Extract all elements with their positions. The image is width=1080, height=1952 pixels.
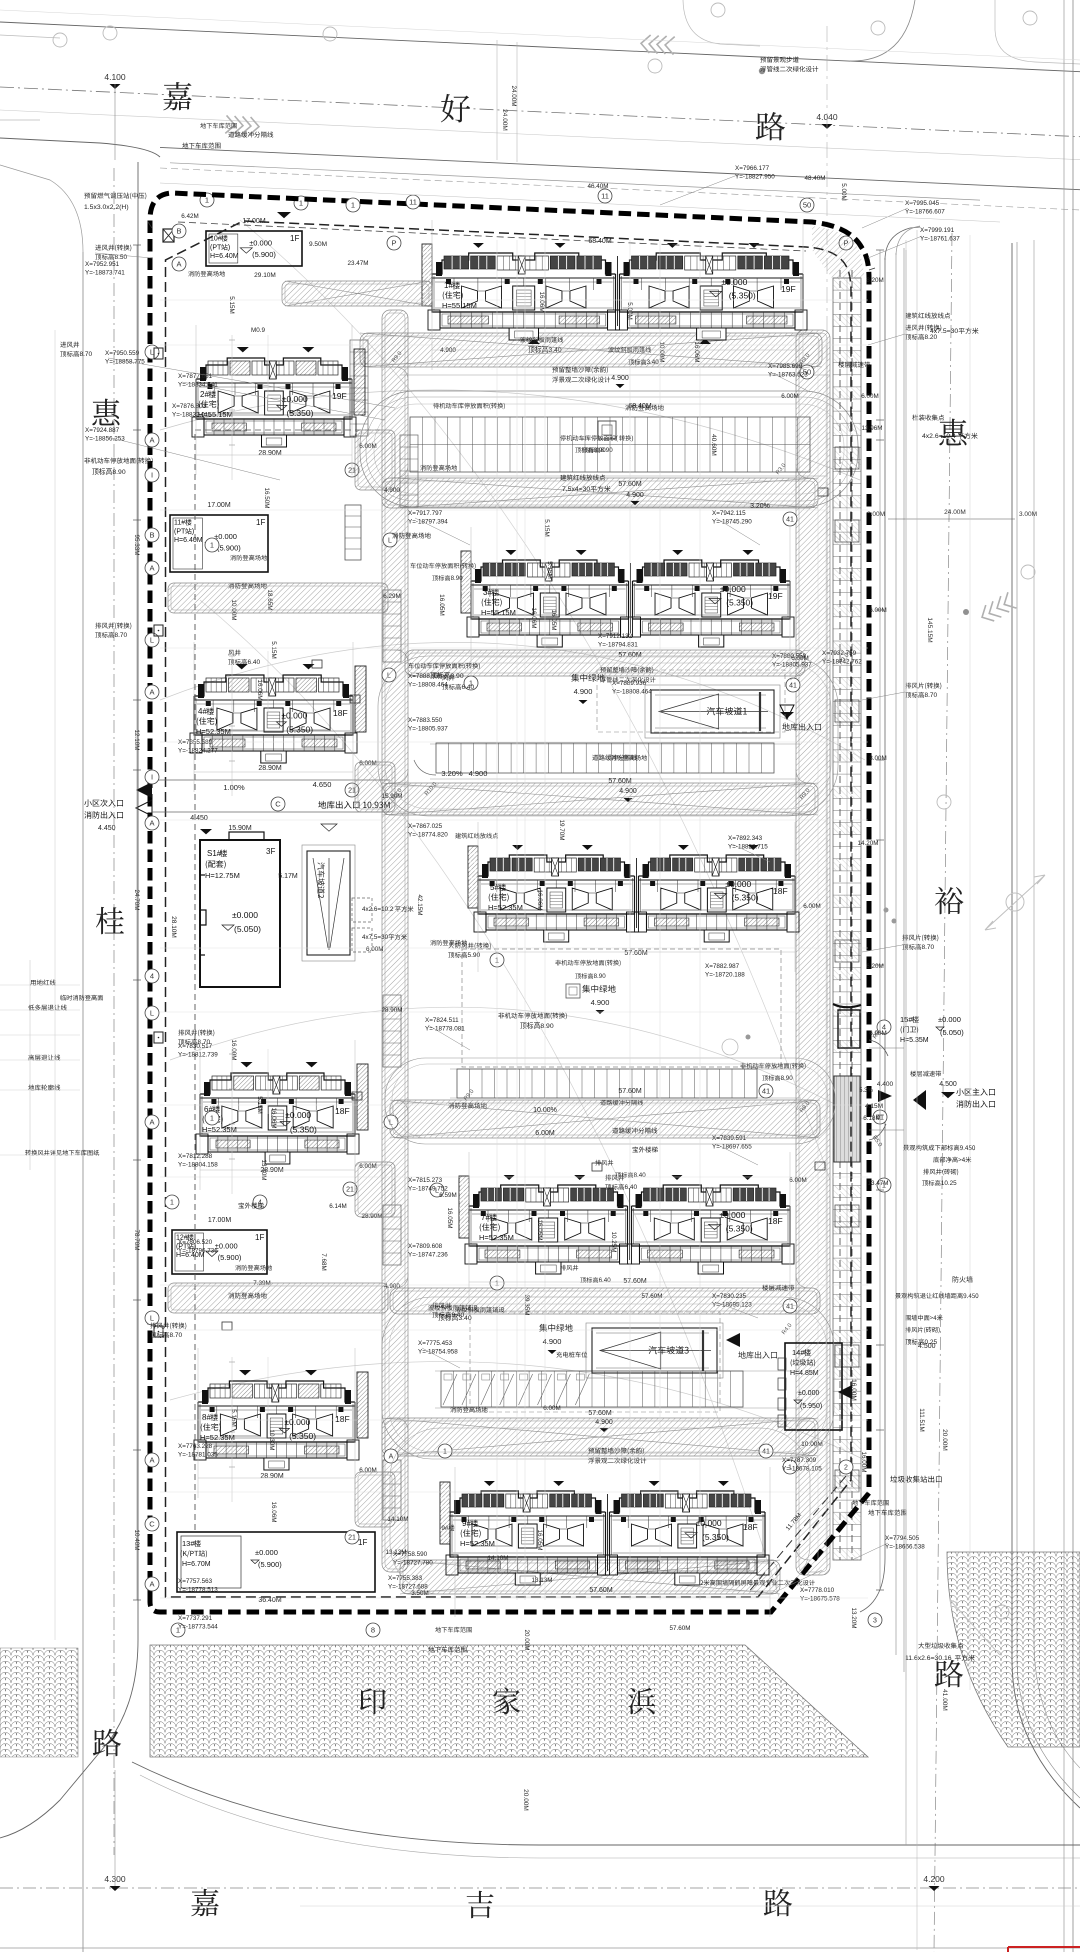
svg-text:57.60M: 57.60M xyxy=(623,1278,647,1285)
svg-text:1.5x3.0x2.2(H): 1.5x3.0x2.2(H) xyxy=(84,204,129,211)
green label 集中绿地 row7 xyxy=(539,1324,572,1332)
river west continuation xyxy=(0,1648,78,1757)
svg-text:4#: 4# xyxy=(198,707,207,716)
west entrance drive lines xyxy=(152,779,390,781)
svg-text:3F: 3F xyxy=(266,847,275,856)
svg-text:±0.000: ±0.000 xyxy=(696,1518,722,1528)
svg-text:±0.000: ±0.000 xyxy=(284,1417,310,1427)
vent shaft boxes xyxy=(350,695,360,703)
svg-text:57.60M: 57.60M xyxy=(589,1587,613,1594)
svg-text:6.40: 6.40 xyxy=(248,659,261,666)
east column inner dashed lines xyxy=(839,270,841,1560)
svg-text:±0.000: ±0.000 xyxy=(938,1015,961,1024)
road 惠裕路 east kerb xyxy=(1012,243,1080,1808)
svg-text:H=52.35M: H=52.35M xyxy=(479,1233,514,1242)
svg-text:L: L xyxy=(150,1314,154,1323)
svg-text:±0.000: ±0.000 xyxy=(721,277,747,287)
svg-text:±0.000: ±0.000 xyxy=(719,1210,745,1220)
svg-text:18F: 18F xyxy=(335,1414,350,1424)
svg-text:1F: 1F xyxy=(256,518,265,527)
svg-text:5.17M: 5.17M xyxy=(278,873,298,880)
axis bubbles corner B A xyxy=(172,224,186,238)
svg-text:X=7778.010: X=7778.010 xyxy=(800,1587,835,1594)
dim 24.00M right road xyxy=(888,518,1015,520)
svg-text:6.14M: 6.14M xyxy=(329,1203,347,1210)
witness line grid verticals xyxy=(496,240,498,1600)
svg-text:57.60M: 57.60M xyxy=(608,778,632,785)
east dimension chain line xyxy=(879,250,881,1590)
svg-text:41: 41 xyxy=(762,1087,770,1096)
svg-text:5.90: 5.90 xyxy=(468,952,481,959)
svg-text:Y=-18804.158: Y=-18804.158 xyxy=(178,1162,218,1169)
racetrack ring row C xyxy=(385,1058,835,1144)
svg-text:1: 1 xyxy=(351,201,355,210)
svg-text:4.650: 4.650 xyxy=(313,780,332,789)
west building dim chains xyxy=(231,335,233,480)
svg-text:2#: 2# xyxy=(200,390,209,399)
svg-text:40.60M: 40.60M xyxy=(710,434,717,456)
leader lines light xyxy=(95,253,152,258)
svg-text:16.05M: 16.05M xyxy=(536,1219,543,1240)
aisle junction fillet arcs xyxy=(394,367,408,381)
building 14# garbage station xyxy=(785,1343,842,1430)
svg-text:L: L xyxy=(150,1009,154,1018)
building 15# gatehouse xyxy=(838,1010,860,1048)
svg-text:6.00M: 6.00M xyxy=(366,946,384,953)
road 惠裕路 arrows xyxy=(978,601,1002,625)
svg-text:(5.900): (5.900) xyxy=(258,1560,282,1569)
misc annotation texts xyxy=(84,193,146,200)
west aisle parking racks xyxy=(350,340,368,436)
building 5# residential 18F xyxy=(478,855,635,876)
svg-text:20.00M: 20.00M xyxy=(523,1629,530,1650)
svg-text:78.70M: 78.70M xyxy=(133,1229,140,1250)
svg-text:X=7867.025: X=7867.025 xyxy=(408,823,443,830)
svg-text:17.00M: 17.00M xyxy=(208,1217,232,1224)
svg-text:Y=-18808.464: Y=-18808.464 xyxy=(612,689,652,696)
svg-text:16.05M: 16.05M xyxy=(446,1207,453,1228)
svg-text:±0.000: ±0.000 xyxy=(215,1242,238,1251)
east entrance 小区主入口 xyxy=(878,1090,892,1102)
left margin label ticks xyxy=(0,984,80,986)
green area dashed outline row7 xyxy=(470,1312,720,1412)
svg-text:10.40M: 10.40M xyxy=(133,1529,140,1550)
parking row D single xyxy=(457,1069,757,1098)
svg-text:16.06M: 16.06M xyxy=(538,291,545,312)
svg-text:H=6.40M: H=6.40M xyxy=(174,537,203,544)
boundary parking column east xyxy=(833,278,861,1560)
svg-text:8.90: 8.90 xyxy=(601,447,614,454)
svg-text:8.20: 8.20 xyxy=(925,334,938,341)
svg-text:8.70: 8.70 xyxy=(80,351,93,358)
svg-text:4.900: 4.900 xyxy=(619,788,637,795)
svg-text:4.450: 4.450 xyxy=(98,825,116,832)
svg-text:4.15M: 4.15M xyxy=(865,1103,883,1110)
drive aisle top horizontal xyxy=(360,333,822,367)
svg-text:(5.050): (5.050) xyxy=(940,1028,964,1037)
svg-text:12.10M: 12.10M xyxy=(133,729,140,750)
svg-text:X=7917.797: X=7917.797 xyxy=(408,510,443,517)
svg-text:X=7932.759: X=7932.759 xyxy=(822,650,857,657)
svg-text:68.40M: 68.40M xyxy=(628,403,652,410)
svg-text:16.05M: 16.05M xyxy=(550,609,557,630)
svg-text:A: A xyxy=(149,1580,154,1589)
svg-text:Y=-18666.538: Y=-18666.538 xyxy=(885,1544,925,1551)
svg-text:H=55.15M: H=55.15M xyxy=(481,608,516,617)
svg-text:Y=-18805.937: Y=-18805.937 xyxy=(408,726,448,733)
setback second dashed line top xyxy=(178,222,806,251)
top extra context line xyxy=(0,10,1080,60)
svg-text:S1#: S1# xyxy=(207,849,222,858)
svg-text:13.47M: 13.47M xyxy=(867,1180,888,1187)
svg-text:X=7812.288: X=7812.288 xyxy=(178,1153,213,1160)
svg-text:(5.350): (5.350) xyxy=(290,1125,317,1135)
road 嘉好路 centerline xyxy=(0,87,1080,137)
drive aisle row4 horizontal xyxy=(382,783,818,815)
svg-text:17.00M: 17.00M xyxy=(207,502,231,509)
svg-text:4x2.6=10.2: 4x2.6=10.2 xyxy=(362,906,394,913)
svg-text:X=7806.520: X=7806.520 xyxy=(178,1239,213,1246)
svg-text:6.40: 6.40 xyxy=(599,1277,612,1284)
svg-text:8.90: 8.90 xyxy=(451,575,464,582)
racetrack ring bottom xyxy=(390,1428,810,1594)
svg-text:8#: 8# xyxy=(202,1413,211,1422)
setback diagonal second dashed xyxy=(747,1476,846,1594)
svg-text:14#: 14# xyxy=(792,1348,805,1357)
svg-text:X=7737.291: X=7737.291 xyxy=(178,1615,213,1622)
building 2# residential 19F xyxy=(196,358,352,379)
svg-text:6.42M: 6.42M xyxy=(181,213,199,220)
svg-text:H=52.35M: H=52.35M xyxy=(488,903,523,912)
svg-text:(5.900): (5.900) xyxy=(218,1253,242,1262)
svg-text:4.900: 4.900 xyxy=(611,375,629,382)
svg-text:I: I xyxy=(151,773,153,782)
road 惠裕路 centerline xyxy=(934,233,952,1952)
svg-text:X=7877.681: X=7877.681 xyxy=(178,373,213,380)
svg-text:3.00M: 3.00M xyxy=(1019,511,1037,518)
svg-text:X=7757.563: X=7757.563 xyxy=(178,1578,213,1585)
street lamp circles top xyxy=(323,27,337,41)
svg-text:Y=-18766.607: Y=-18766.607 xyxy=(905,209,945,216)
svg-text:6.00M: 6.00M xyxy=(861,393,879,400)
svg-text:4: 4 xyxy=(150,972,154,981)
svg-text:±0.000: ±0.000 xyxy=(282,394,308,404)
svg-text:11#: 11# xyxy=(174,520,185,527)
svg-text:4.450: 4.450 xyxy=(190,815,208,822)
site light backdrop lines xyxy=(160,390,860,480)
road 嘉好路 name xyxy=(163,82,191,110)
svg-text:41: 41 xyxy=(786,517,794,524)
svg-text:): ) xyxy=(228,244,230,251)
svg-text:4.900: 4.900 xyxy=(469,769,488,778)
ramp3 entrance arrow xyxy=(726,1333,740,1347)
svg-text:X=7809.608: X=7809.608 xyxy=(408,1243,443,1250)
building 8# residential 18F xyxy=(198,1381,355,1402)
building witness lines xyxy=(431,220,433,370)
svg-text:X=7999.191: X=7999.191 xyxy=(920,227,955,234)
central green area outline xyxy=(462,949,781,1067)
svg-text:H=12.75M: H=12.75M xyxy=(205,871,240,880)
svg-text:1F: 1F xyxy=(290,234,299,243)
svg-text:X=7882.987: X=7882.987 xyxy=(705,963,740,970)
svg-text:6.00M: 6.00M xyxy=(543,1405,561,1412)
svg-text:顶标高8.90: 顶标高8.90 xyxy=(92,467,126,476)
svg-text:39.35M: 39.35M xyxy=(523,1294,530,1315)
svg-text:(5.350): (5.350) xyxy=(729,290,756,300)
svg-text:): ) xyxy=(631,435,633,442)
svg-text:Y=-18812.739: Y=-18812.739 xyxy=(178,1052,218,1059)
svg-text:±0.000: ±0.000 xyxy=(232,910,258,920)
svg-text:Y=-18858.775: Y=-18858.775 xyxy=(105,359,145,366)
svg-text:(5.900): (5.900) xyxy=(252,250,276,259)
svg-text:8.00M: 8.00M xyxy=(869,755,887,762)
svg-text:(5.900): (5.900) xyxy=(217,544,241,553)
svg-text:±0.000: ±0.000 xyxy=(285,1110,311,1120)
svg-text:X=7815.273: X=7815.273 xyxy=(408,1177,443,1184)
svg-text:Y=-18761.637: Y=-18761.637 xyxy=(920,236,960,243)
svg-text:8.90: 8.90 xyxy=(781,1075,794,1082)
svg-text:24.70M: 24.70M xyxy=(133,889,140,910)
svg-text:顶标高8.90: 顶标高8.90 xyxy=(430,671,464,680)
svg-text:X=7794.505: X=7794.505 xyxy=(885,1535,920,1542)
svg-text:29.10M: 29.10M xyxy=(254,272,276,279)
left boundary vent boxes xyxy=(154,348,163,359)
road 惠桂路 centerline xyxy=(113,168,115,1855)
svg-text:8.70: 8.70 xyxy=(922,944,935,951)
red legend corner xyxy=(1008,1947,1080,1952)
racetrack ring row B xyxy=(378,656,838,816)
road 嘉好路 south edge xyxy=(0,138,160,157)
svg-text:2: 2 xyxy=(844,1465,848,1472)
svg-text:6.59M: 6.59M xyxy=(439,1192,457,1199)
svg-text:21: 21 xyxy=(348,1535,356,1542)
road 嘉吉路 south edge xyxy=(0,1947,1080,1949)
bottom right road arrows xyxy=(950,1600,1000,1655)
svg-text:顶标高0.25: 顶标高0.25 xyxy=(905,1337,938,1346)
svg-text:20.00M: 20.00M xyxy=(522,1789,529,1811)
building 13# K/PT station xyxy=(177,1532,375,1592)
svg-text:I: I xyxy=(151,471,153,480)
svg-text:X=7876.803: X=7876.803 xyxy=(172,403,207,410)
svg-text:24.00M: 24.00M xyxy=(501,109,508,131)
extra tiny labels interior xyxy=(420,465,457,471)
svg-text:X=7942.115: X=7942.115 xyxy=(712,510,746,517)
drive aisle row7 horizontal xyxy=(382,1418,818,1456)
road 惠裕路 kerb west xyxy=(885,227,920,260)
car ramp 3 汽车坡道3 xyxy=(592,1328,717,1373)
east entrance dark zone xyxy=(834,1076,860,1162)
svg-text:Y=-18745.290: Y=-18745.290 xyxy=(712,519,752,526)
right margin survey arrow xyxy=(985,875,1045,930)
svg-text:9.50M: 9.50M xyxy=(309,241,327,248)
svg-text:9#楼: 9#楼 xyxy=(441,1523,455,1532)
svg-text:57.60M: 57.60M xyxy=(588,1410,612,1417)
svg-text:16.06M: 16.06M xyxy=(270,1501,277,1522)
car ramp 1 汽车坡道1 xyxy=(651,690,774,733)
svg-text:A: A xyxy=(389,1454,394,1461)
svg-text:15#: 15# xyxy=(900,1015,913,1024)
svg-text:5.15M: 5.15M xyxy=(543,519,550,537)
svg-text:6.00M: 6.00M xyxy=(869,1030,887,1037)
svg-text:16.06M: 16.06M xyxy=(530,607,537,628)
svg-text:28.90M: 28.90M xyxy=(260,1473,284,1480)
left margin verticals xyxy=(54,330,56,1640)
road 惠裕路 kerb lines xyxy=(896,226,920,255)
svg-text:19F: 19F xyxy=(768,591,783,601)
svg-text:Y=-18808.464: Y=-18808.464 xyxy=(408,682,448,689)
svg-text:18F: 18F xyxy=(773,886,788,896)
svg-text:41: 41 xyxy=(789,683,797,690)
svg-text:3: 3 xyxy=(873,1618,877,1625)
svg-text:8.20M: 8.20M xyxy=(866,277,884,284)
svg-text:H=6.70M: H=6.70M xyxy=(182,1561,211,1568)
svg-text:20.00M: 20.00M xyxy=(941,1429,948,1451)
svg-text:18F: 18F xyxy=(335,1106,350,1116)
svg-text:A: A xyxy=(149,819,154,828)
svg-text:Y=-18873.741: Y=-18873.741 xyxy=(85,270,125,277)
svg-text:L: L xyxy=(150,636,154,645)
svg-text:11: 11 xyxy=(601,192,609,201)
svg-text:B: B xyxy=(149,531,154,540)
svg-text:1: 1 xyxy=(205,196,209,205)
green label 集中绿地 center xyxy=(582,985,615,993)
svg-text:Y=-18754.958: Y=-18754.958 xyxy=(418,1349,458,1356)
svg-text:X=7924.887: X=7924.887 xyxy=(85,427,120,434)
svg-text:Y=-18796.736: Y=-18796.736 xyxy=(178,1248,218,1255)
svg-text:11.6x2.6=30.16: 11.6x2.6=30.16 xyxy=(905,1655,952,1662)
svg-text:Y=-18856.253: Y=-18856.253 xyxy=(85,436,125,443)
drive aisle row2 horizontal xyxy=(382,478,818,508)
svg-text:±0.000: ±0.000 xyxy=(725,879,751,889)
svg-text:6.00M: 6.00M xyxy=(869,607,887,614)
svg-text:7#: 7# xyxy=(481,1213,490,1222)
road 嘉好路 north edge xyxy=(0,22,1080,72)
svg-text:1: 1 xyxy=(299,199,303,208)
svg-text:46.40M: 46.40M xyxy=(587,183,608,190)
svg-text:9#: 9# xyxy=(462,1519,471,1528)
svg-text:5.3%: 5.3% xyxy=(859,1088,873,1094)
svg-text:5#: 5# xyxy=(490,883,499,892)
svg-text:19F: 19F xyxy=(781,284,796,294)
svg-text:4.900: 4.900 xyxy=(626,492,644,499)
road 嘉吉路 centerline xyxy=(0,1887,1080,1889)
drive aisle row3 horizontal xyxy=(405,650,805,676)
svg-text:57.60M: 57.60M xyxy=(624,950,648,957)
svg-text:X=7950.559: X=7950.559 xyxy=(105,350,140,357)
east inner dim verticals xyxy=(817,340,819,1560)
axis bubbles bottom xyxy=(171,1623,185,1637)
svg-text:28.90M: 28.90M xyxy=(258,765,282,772)
svg-text:A: A xyxy=(176,260,181,269)
boundary corner ticks xyxy=(148,222,875,270)
bottom road second kerb xyxy=(140,1775,1080,1858)
svg-text:±0.000: ±0.000 xyxy=(281,710,307,720)
context arc top-right intersection xyxy=(850,0,915,61)
extra mixed labels xyxy=(560,435,615,441)
svg-text:10.00M: 10.00M xyxy=(658,341,665,362)
svg-text:H=52.35M: H=52.35M xyxy=(460,1539,495,1548)
svg-text:Y=-18675.578: Y=-18675.578 xyxy=(800,1596,840,1603)
svg-text:A: A xyxy=(149,1118,154,1127)
svg-text:57.60M: 57.60M xyxy=(669,1625,690,1632)
svg-text:8.40: 8.40 xyxy=(634,1172,647,1179)
svg-text:X=7824.511: X=7824.511 xyxy=(425,1017,459,1024)
svg-text:(PT: (PT xyxy=(210,244,222,251)
green area dashed outline row3 xyxy=(597,670,785,732)
river 印家浜 east patch xyxy=(947,1552,1080,1747)
svg-text:8.70: 8.70 xyxy=(115,632,128,639)
setback dashed line inner xyxy=(166,221,852,1597)
svg-text:4x2.6=10.4: 4x2.6=10.4 xyxy=(922,433,956,440)
svg-text:4.900: 4.900 xyxy=(574,687,593,696)
drive aisle west vertical xyxy=(382,310,408,1572)
svg-text:15.90M: 15.90M xyxy=(228,825,252,832)
garbage exit 垃圾收集站出口 xyxy=(851,1389,853,1391)
svg-text:24.00M: 24.00M xyxy=(944,509,966,516)
svg-text:P: P xyxy=(391,239,396,248)
building 1# below triangles xyxy=(528,339,540,344)
svg-text:57.60M: 57.60M xyxy=(641,1293,662,1300)
river 印家浜 band xyxy=(150,1645,868,1757)
svg-text:8: 8 xyxy=(371,1626,375,1635)
svg-text:16.06M: 16.06M xyxy=(693,341,700,362)
svg-text:16.05M: 16.05M xyxy=(536,1529,543,1550)
svg-text:42.15M: 42.15M xyxy=(416,894,423,915)
svg-text:X=7830.235: X=7830.235 xyxy=(712,1293,747,1300)
svg-text:6.00M: 6.00M xyxy=(789,1177,807,1184)
svg-text:3.20%: 3.20% xyxy=(441,769,463,778)
svg-text:Y=-18832.015: Y=-18832.015 xyxy=(172,412,212,419)
svg-text:8.70: 8.70 xyxy=(925,692,938,699)
parking row B left corner xyxy=(414,760,436,775)
svg-text:28.90M: 28.90M xyxy=(381,1007,402,1014)
svg-text:A: A xyxy=(149,436,154,445)
svg-text:Y=-18827.950: Y=-18827.950 xyxy=(735,174,775,181)
svg-text:18F: 18F xyxy=(333,708,348,718)
svg-text:4.900: 4.900 xyxy=(591,998,610,1007)
building 7# residential 18F xyxy=(469,1185,628,1206)
drive aisle bottom horizontal xyxy=(400,1560,780,1594)
svg-text:18F: 18F xyxy=(768,1216,783,1226)
svg-text:Y=-18678.105: Y=-18678.105 xyxy=(782,1466,822,1473)
parking field A outline xyxy=(360,391,858,507)
svg-text:48.40M: 48.40M xyxy=(804,175,825,182)
svg-text:±0.000: ±0.000 xyxy=(798,1390,819,1397)
building 12# PT station xyxy=(172,1230,267,1274)
svg-text:4x7.5=30: 4x7.5=30 xyxy=(362,934,389,941)
building 6# residential 18F xyxy=(200,1073,355,1094)
svg-text:(5.350): (5.350) xyxy=(732,892,759,902)
svg-text:(5.350): (5.350) xyxy=(726,597,753,607)
svg-text:21: 21 xyxy=(346,1187,354,1194)
svg-text:X=7755.383: X=7755.383 xyxy=(388,1575,423,1582)
svg-text:28.10M: 28.10M xyxy=(170,916,177,938)
svg-text:L: L xyxy=(150,348,154,357)
svg-text:(5.350): (5.350) xyxy=(702,1532,729,1542)
svg-text:13.13M: 13.13M xyxy=(385,1549,406,1556)
svg-text:H=52.35M: H=52.35M xyxy=(200,1433,235,1442)
east entrance lower labels xyxy=(903,1145,975,1151)
svg-text:): ) xyxy=(192,528,194,535)
svg-text:19.70M: 19.70M xyxy=(558,819,565,840)
building 3# residential 19F xyxy=(471,560,629,581)
right margin extra verticals xyxy=(916,230,918,1950)
svg-text:A: A xyxy=(149,688,154,697)
road 嘉吉路 name xyxy=(191,1889,218,1916)
svg-text:8.90: 8.90 xyxy=(594,973,607,980)
parking row E with EV stalls xyxy=(441,1371,743,1407)
road 惠桂路 name xyxy=(92,399,119,426)
